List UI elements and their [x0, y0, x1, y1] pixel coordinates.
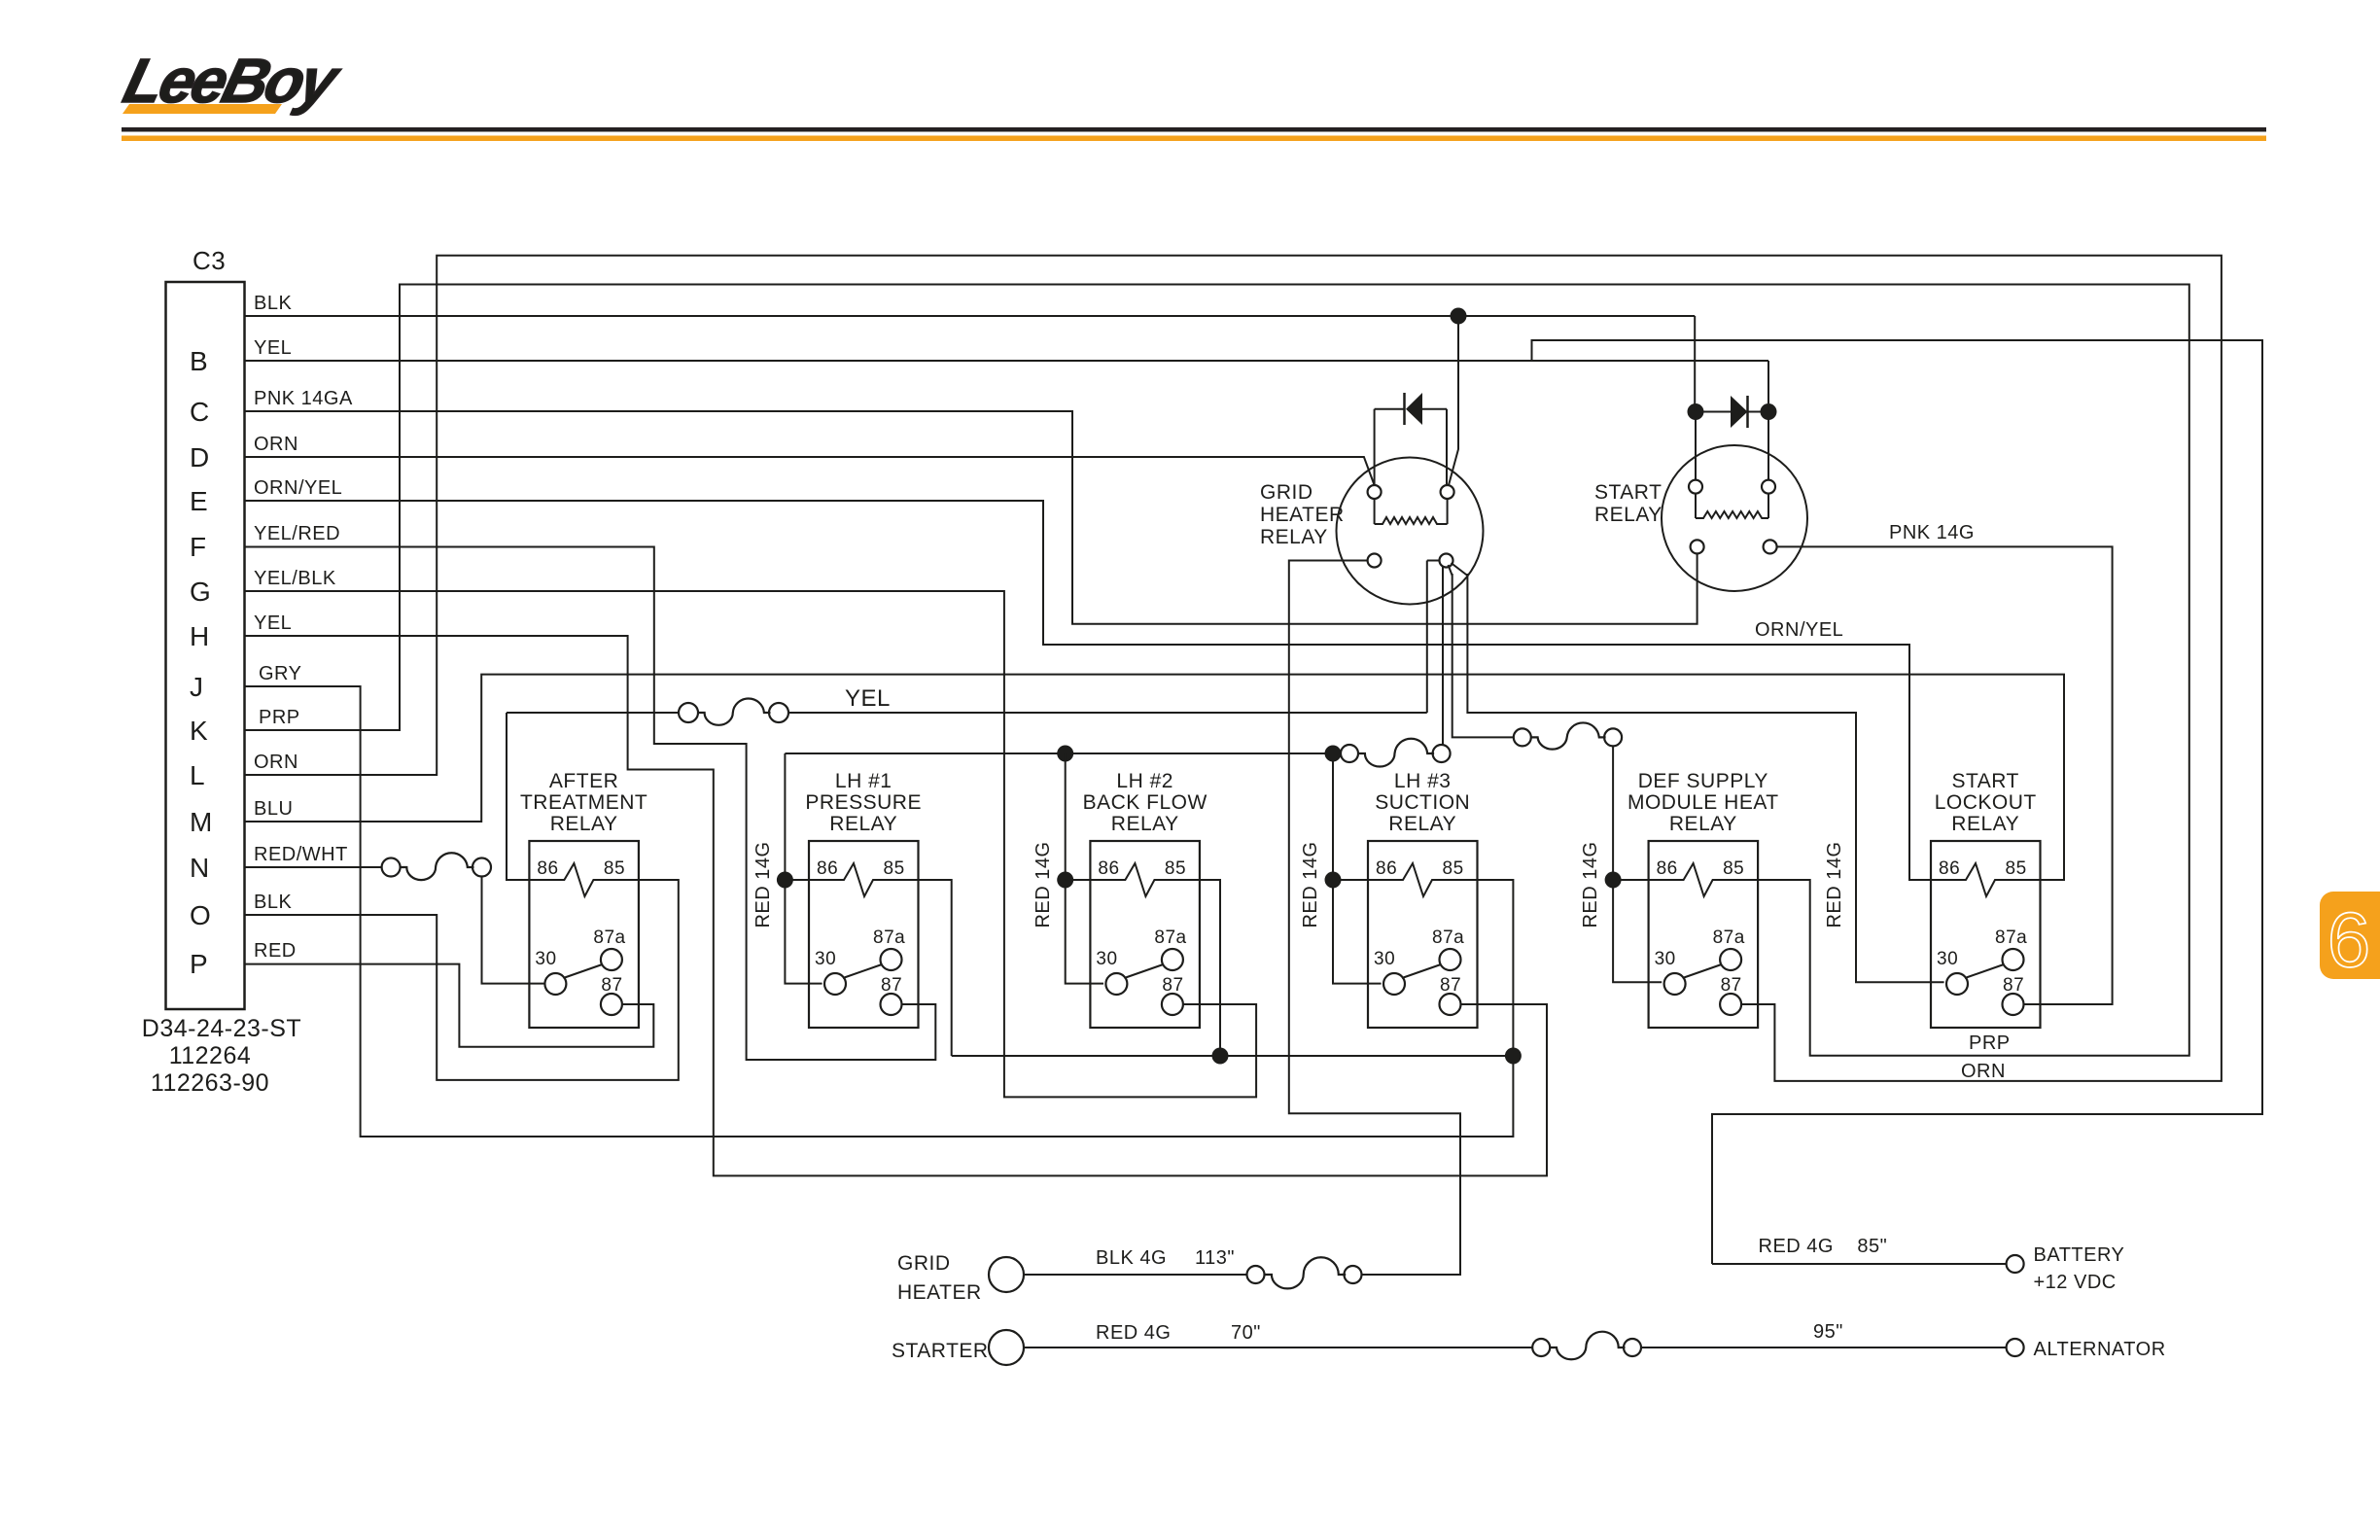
- wire fuse to ATR pin 30: [482, 877, 545, 984]
- after treatment relay U1 pin 87a: [601, 949, 622, 970]
- svg-text:112263-90: 112263-90: [151, 1069, 269, 1097]
- LH #2 back flow relay U3 pin 30: [1105, 973, 1127, 995]
- svg-text:YEL: YEL: [845, 685, 891, 712]
- svg-text:RELAY: RELAY: [1111, 813, 1179, 835]
- junction dot GRY riser / 85 bus: [1505, 1048, 1522, 1065]
- svg-text:C3: C3: [192, 246, 226, 275]
- svg-text:87a: 87a: [1995, 927, 2027, 948]
- wire to grid heater device via BLK 4G fuse: [1289, 561, 1460, 1276]
- svg-text:GRID: GRID: [1260, 481, 1313, 504]
- svg-text:TREATMENT: TREATMENT: [520, 791, 647, 814]
- svg-text:ORN/YEL: ORN/YEL: [1755, 619, 1843, 641]
- LH #1 pressure relay U2 pin 87: [881, 994, 902, 1015]
- svg-text:70": 70": [1231, 1322, 1261, 1344]
- svg-text:113": 113": [1195, 1247, 1235, 1269]
- svg-text:D: D: [190, 442, 210, 472]
- svg-text:87: 87: [2003, 975, 2024, 996]
- wire riser DEF 30: [1613, 746, 1662, 982]
- svg-text:87a: 87a: [1713, 927, 1745, 948]
- svg-text:SUCTION: SUCTION: [1375, 791, 1470, 814]
- svg-text:N: N: [190, 853, 210, 883]
- svg-text:C: C: [190, 397, 210, 427]
- wire YEL/RED to LH#1 pin 87: [245, 547, 936, 1061]
- svg-text:YEL/BLK: YEL/BLK: [254, 568, 336, 589]
- diode CR2 cathode bar: [1746, 396, 1749, 428]
- svg-text:D34-24-23-ST: D34-24-23-ST: [142, 1015, 301, 1042]
- svg-text:LH #2: LH #2: [1116, 770, 1173, 792]
- start relay body circle: [1662, 445, 1807, 591]
- svg-text:ORN/YEL: ORN/YEL: [254, 477, 342, 499]
- stub ATR 87 (drawn with RED net): [622, 1003, 653, 1005]
- svg-text:H: H: [190, 621, 210, 651]
- svg-text:85: 85: [884, 858, 905, 879]
- LH #1 pressure relay U2 switch arm 30-87a: [843, 964, 882, 978]
- svg-text:BLK 4G: BLK 4G: [1096, 1247, 1167, 1269]
- svg-text:LH #3: LH #3: [1394, 770, 1452, 792]
- svg-text:95": 95": [1813, 1321, 1843, 1343]
- svg-text:87a: 87a: [1154, 927, 1186, 948]
- svg-text:STARTER: STARTER: [892, 1340, 989, 1362]
- svg-text:E: E: [190, 486, 208, 516]
- diagonal grid heater pin to DEF feed: [1449, 565, 1452, 576]
- svg-text:85: 85: [1723, 858, 1744, 879]
- svg-text:G: G: [190, 577, 211, 607]
- wire BLK 4G: [1024, 1274, 1247, 1276]
- wire PNK 14GA C3 to start relay contact left: [245, 411, 1697, 624]
- svg-text:BLK: BLK: [254, 293, 292, 314]
- svg-text:30: 30: [1374, 949, 1395, 969]
- inline connector F4 (DEF feed): [1514, 728, 1531, 746]
- svg-text:P: P: [190, 949, 208, 979]
- junction dot BLK / grid-heater tap: [1451, 308, 1467, 325]
- junction dot 85 bus / LH#2 riser: [1212, 1048, 1229, 1065]
- svg-text:ORN: ORN: [254, 434, 298, 455]
- svg-text:HEATER: HEATER: [1260, 504, 1345, 526]
- start relay contact pin left: [1691, 540, 1704, 553]
- svg-text:85: 85: [1165, 858, 1186, 879]
- wire YEL H to LH#3 pin 87: [245, 636, 1548, 1175]
- svg-text:RELAY: RELAY: [1388, 813, 1456, 835]
- wire riser to ATR 86: [507, 713, 529, 880]
- wire RED/WHT to fuse: [245, 866, 382, 868]
- start lockout relay U6 pin 87a: [2003, 949, 2024, 970]
- wire BLK down to start relay: [1694, 316, 1696, 412]
- LH #2 back flow relay U3 pin 87a: [1162, 949, 1183, 970]
- svg-text:RED 4G: RED 4G: [1096, 1322, 1171, 1344]
- svg-text:85: 85: [604, 858, 625, 879]
- wire grid heater contact to start lockout 30: [1467, 574, 1943, 982]
- svg-text:86: 86: [1098, 858, 1119, 879]
- svg-text:ALTERNATOR: ALTERNATOR: [2034, 1339, 2166, 1360]
- svg-text:86: 86: [1657, 858, 1678, 879]
- wire GRY to LH#3 85 riser: [245, 686, 1514, 1137]
- wire grid heater contact to fuse F4: [1452, 574, 1514, 737]
- start lockout relay U6 pin 30: [1946, 973, 1968, 995]
- wire to alternator: [1641, 1347, 2007, 1348]
- start lockout relay U6 coil: [1931, 863, 2041, 896]
- svg-text:BACK FLOW: BACK FLOW: [1083, 791, 1207, 814]
- svg-text:B: B: [190, 346, 208, 376]
- wire PRP to DEF 85: [245, 285, 2189, 1056]
- LeeBoy logo: [118, 46, 348, 116]
- LH #1 pressure relay U2 pin 87a: [881, 949, 902, 970]
- header orange rule: [122, 136, 2266, 142]
- svg-text:MODULE HEAT: MODULE HEAT: [1627, 791, 1779, 814]
- svg-text:PRESSURE: PRESSURE: [805, 791, 922, 814]
- wire CR2 left leg to coil pin: [1695, 412, 1697, 480]
- svg-text:RELAY: RELAY: [1594, 504, 1662, 526]
- svg-text:30: 30: [1096, 949, 1117, 969]
- after treatment relay U1 pin 30: [544, 973, 566, 995]
- wire RED 4G starter: [1024, 1347, 1532, 1348]
- svg-text:RED 14G: RED 14G: [1580, 841, 1601, 927]
- svg-text:87: 87: [601, 975, 622, 996]
- grid heater relay contact pin right: [1440, 554, 1453, 568]
- svg-text:F: F: [190, 532, 207, 562]
- grid heater device terminal circle: [989, 1257, 1024, 1292]
- junction dot bus / LH#2 riser: [1057, 746, 1073, 762]
- svg-text:30: 30: [815, 949, 836, 969]
- junction dot diode CR2 left: [1688, 403, 1704, 420]
- wire RED 4G to battery: [1712, 1263, 2007, 1265]
- DEF supply module heat relay U5 pin 30: [1664, 973, 1686, 995]
- wire ORN to grid heater coil left pin: [245, 457, 1375, 485]
- wire RED to ATR 87: [245, 964, 654, 1047]
- svg-text:85": 85": [1857, 1236, 1887, 1257]
- wire riser LH#1 30: [785, 753, 822, 984]
- svg-text:87a: 87a: [1432, 927, 1464, 948]
- svg-text:PNK 14GA: PNK 14GA: [254, 388, 353, 409]
- after treatment relay U1 coil: [529, 863, 639, 896]
- diode CR1 right leg to coil pin: [1446, 409, 1448, 485]
- inline connector F6 (starter-alternator): [1532, 1339, 1550, 1356]
- inline connector F2 (YEL): [679, 703, 698, 722]
- wire LH#2 85 riser: [1200, 880, 1220, 1056]
- svg-text:RED 14G: RED 14G: [1300, 841, 1321, 927]
- svg-text:YEL/RED: YEL/RED: [254, 523, 340, 544]
- svg-text:PRP: PRP: [259, 707, 300, 728]
- svg-text:87a: 87a: [593, 927, 625, 948]
- grid heater coil right lead: [1447, 499, 1449, 524]
- svg-text:112264: 112264: [169, 1042, 252, 1069]
- svg-text:RELAY: RELAY: [550, 813, 618, 835]
- svg-text:87: 87: [881, 975, 902, 996]
- wire BLK O to ATR 85: [245, 880, 679, 1080]
- DEF supply module heat relay U5 switch arm 30-87a: [1683, 964, 1722, 978]
- LH #3 suction relay U4 coil: [1368, 863, 1478, 896]
- start lockout relay U6 pin 87: [2003, 994, 2024, 1015]
- svg-text:RELAY: RELAY: [1260, 526, 1328, 548]
- svg-text:86: 86: [1939, 858, 1960, 879]
- svg-text:START: START: [1594, 481, 1662, 504]
- wire riser to grid heater contact right: [1426, 561, 1428, 714]
- LH #1 pressure relay U2 pin 30: [824, 973, 846, 995]
- diode CR2 left wire: [1696, 411, 1731, 413]
- svg-text:BLK: BLK: [254, 892, 292, 913]
- wire fuse F3 to grid heater contact right: [1442, 567, 1444, 745]
- svg-text:30: 30: [1937, 949, 1958, 969]
- svg-text:RED: RED: [254, 940, 297, 962]
- svg-text:LOCKOUT: LOCKOUT: [1935, 791, 2037, 814]
- svg-text:RED 14G: RED 14G: [1032, 841, 1054, 927]
- diode CR1 left wire: [1375, 408, 1405, 410]
- svg-text:HEATER: HEATER: [897, 1281, 982, 1304]
- page number tab 6: [2320, 892, 2380, 979]
- stub LH#3 86: [1333, 879, 1368, 881]
- junction dot LH#1 86: [777, 872, 793, 889]
- after treatment relay U1 pin 87: [601, 994, 622, 1015]
- wire ORN/YEL to start lockout 86: [245, 501, 1936, 880]
- wire RED 14G bus: [785, 752, 1333, 754]
- grid heater coil zigzag: [1375, 517, 1448, 524]
- wire YEL pin B horizontal: [245, 360, 1769, 362]
- inline connector F1 (RED/WHT): [382, 858, 401, 877]
- DEF supply module heat relay U5 pin 87a: [1720, 949, 1741, 970]
- svg-text:RELAY: RELAY: [1669, 813, 1737, 835]
- svg-text:87: 87: [1162, 975, 1183, 996]
- start lockout relay U6 switch arm 30-87a: [1965, 964, 2004, 978]
- stub LH#2 86: [1066, 879, 1091, 881]
- grid heater coil left lead: [1374, 499, 1376, 524]
- svg-text:PNK 14G: PNK 14G: [1889, 522, 1975, 543]
- svg-text:ORN: ORN: [254, 752, 298, 773]
- LH #2 back flow relay U3 switch arm 30-87a: [1124, 964, 1163, 978]
- alternator terminal circle: [2007, 1339, 2024, 1356]
- grid heater relay contact pin left: [1368, 554, 1382, 568]
- svg-text:85: 85: [2006, 858, 2027, 879]
- start relay coil zigzag: [1696, 511, 1768, 518]
- wire YEL long line to grid heater contact: [788, 712, 1427, 714]
- svg-text:GRY: GRY: [259, 663, 301, 684]
- DEF supply module heat relay U5 coil: [1649, 863, 1759, 896]
- LH #3 suction relay U4 pin 30: [1383, 973, 1405, 995]
- wire riser LH#3 30: [1333, 753, 1382, 984]
- after treatment relay U1 switch arm 30-87a: [563, 964, 602, 978]
- svg-text:GRID: GRID: [897, 1252, 951, 1275]
- svg-text:YEL: YEL: [254, 612, 292, 634]
- wire YEL branch via top right to battery feed riser: [1532, 340, 2263, 1264]
- junction dot bus / LH#3 riser: [1325, 746, 1342, 762]
- svg-text:O: O: [190, 900, 211, 930]
- svg-text:M: M: [190, 807, 213, 837]
- wire CR2 right leg to coil pin: [1767, 412, 1769, 480]
- stub DEF 86: [1613, 879, 1649, 881]
- connector C3 box: [166, 282, 245, 1009]
- svg-text:85: 85: [1443, 858, 1464, 879]
- wire to YEL fuse left: [507, 712, 679, 714]
- wire ORN to DEF 87: [245, 256, 2222, 1081]
- svg-text:86: 86: [537, 858, 558, 879]
- svg-text:RED 4G: RED 4G: [1759, 1236, 1834, 1257]
- LH #2 back flow relay U3 coil: [1090, 863, 1200, 896]
- start relay coil pin left: [1689, 480, 1702, 494]
- wire BLU to start lockout 85: [245, 675, 2065, 880]
- svg-text:START: START: [1951, 770, 2018, 792]
- LH #3 suction relay U4 pin 87: [1440, 994, 1461, 1015]
- wire YEL/BLK to LH#2 pin 87: [245, 591, 1257, 1097]
- starter terminal circle: [989, 1330, 1024, 1365]
- inline connector F5 (BLK 4G): [1247, 1266, 1265, 1283]
- svg-text:PRP: PRP: [1969, 1032, 2011, 1054]
- header black rule: [122, 127, 2266, 132]
- svg-text:YEL: YEL: [254, 337, 292, 359]
- grid heater relay coil pin left: [1368, 485, 1382, 499]
- svg-text:BLU: BLU: [254, 798, 293, 820]
- LH #3 suction relay U4 switch arm 30-87a: [1402, 964, 1441, 978]
- diode CR2 right wire: [1748, 411, 1769, 413]
- start relay coil pin right: [1762, 480, 1775, 494]
- wire YEL down to diode dot / start relay coil right: [1767, 361, 1769, 403]
- start relay coil right lead: [1767, 494, 1769, 518]
- junction dot diode CR2 right: [1761, 403, 1777, 420]
- svg-text:RED 14G: RED 14G: [1824, 841, 1845, 927]
- wire PNK 14G start relay to start lockout 87: [1777, 546, 2113, 1004]
- svg-text:87: 87: [1721, 975, 1742, 996]
- svg-text:DEF SUPPLY: DEF SUPPLY: [1638, 770, 1768, 792]
- svg-text:RED 14G: RED 14G: [752, 841, 774, 927]
- grid heater relay coil pin right: [1441, 485, 1454, 499]
- LH #2 back flow relay U3 pin 87: [1162, 994, 1183, 1015]
- logo orange underline: [122, 104, 282, 114]
- junction dot LH#2 86: [1057, 872, 1073, 889]
- stub LH#1 86: [785, 879, 809, 881]
- LH #3 suction relay U4 pin 87a: [1440, 949, 1461, 970]
- svg-text:RELAY: RELAY: [1951, 813, 2019, 835]
- diode CR1 cathode bar: [1403, 393, 1406, 425]
- wire riser LH#2 30: [1066, 753, 1103, 984]
- svg-text:RELAY: RELAY: [829, 813, 897, 835]
- inline connector F3 (grid heater relay feed): [1341, 745, 1358, 762]
- wire tap down to grid heater coil right pin: [1449, 316, 1458, 485]
- DEF supply module heat relay U5 pin 87: [1720, 994, 1741, 1015]
- battery terminal circle: [2007, 1255, 2024, 1273]
- svg-text:+12 VDC: +12 VDC: [2034, 1272, 2117, 1293]
- wire LH#1 85 riser: [918, 880, 952, 1056]
- start relay coil left lead: [1695, 494, 1697, 518]
- svg-text:86: 86: [817, 858, 838, 879]
- diagonal grid heater pin to SL feed: [1452, 563, 1468, 576]
- svg-text:86: 86: [1376, 858, 1397, 879]
- start relay contact pin right: [1764, 540, 1777, 553]
- svg-text:L: L: [190, 760, 205, 790]
- junction dot LH#3 86: [1325, 872, 1342, 889]
- svg-text:AFTER: AFTER: [549, 770, 618, 792]
- svg-text:LH #1: LH #1: [835, 770, 892, 792]
- svg-text:87a: 87a: [873, 927, 905, 948]
- svg-text:BATTERY: BATTERY: [2034, 1244, 2125, 1266]
- svg-text:30: 30: [1655, 949, 1676, 969]
- svg-text:RED/WHT: RED/WHT: [254, 844, 348, 865]
- wire 85 bus: [952, 1055, 1514, 1057]
- grid heater relay body circle: [1337, 458, 1484, 605]
- svg-text:J: J: [190, 672, 204, 702]
- svg-text:6: 6: [2327, 896, 2371, 983]
- diode CR1 left leg to coil pin: [1374, 409, 1376, 485]
- stub to grid heater contact right pin: [1427, 560, 1440, 562]
- diode CR1 right wire: [1422, 408, 1447, 410]
- junction dot DEF 86: [1605, 872, 1622, 889]
- svg-text:K: K: [190, 716, 208, 746]
- svg-text:ORN: ORN: [1961, 1061, 2006, 1082]
- svg-text:30: 30: [535, 949, 556, 969]
- svg-text:87: 87: [1440, 975, 1461, 996]
- LH #1 pressure relay U2 coil: [809, 863, 919, 896]
- wire BLK horizontal: [245, 315, 1696, 317]
